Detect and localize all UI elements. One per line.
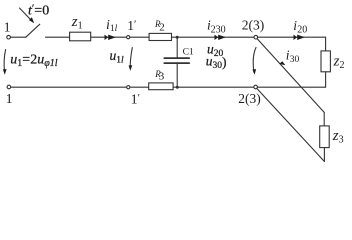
voltage arrow u1 xyxy=(3,50,7,75)
node 1' (top) xyxy=(127,18,137,39)
resistor z1 xyxy=(70,14,91,41)
node 2(3) (top) xyxy=(242,17,264,39)
junction dot (C1 bottom) xyxy=(176,86,179,89)
svg-text:t′=0: t′=0 xyxy=(28,2,49,18)
svg-text:30: 30 xyxy=(290,55,300,65)
bottom bus wire xyxy=(11,86,326,88)
wire R2 to corner (top bus) xyxy=(172,36,326,38)
switch blade S xyxy=(26,24,40,37)
current arrow i20 xyxy=(293,18,307,40)
impedance z3 xyxy=(320,126,344,148)
wire z1 to node 1' xyxy=(91,36,127,38)
svg-text:230: 230 xyxy=(211,24,226,35)
junction dot (C1 top) xyxy=(176,36,179,39)
current arrow i30 on diagonal xyxy=(279,47,299,65)
svg-text:2: 2 xyxy=(159,22,165,34)
impedance z2 xyxy=(321,51,344,72)
wire switch to z1 xyxy=(46,36,70,38)
voltage arrow u1l xyxy=(129,48,133,71)
annotation arrow t'=0 xyxy=(20,8,35,23)
node 1' (bottom) xyxy=(127,86,140,108)
svg-text:C1: C1 xyxy=(183,48,194,58)
diagonal wire node 2(3) bottom to z3 bottom xyxy=(257,89,324,162)
wire terminal 1 to switch pivot xyxy=(11,36,26,38)
svg-text:2(3): 2(3) xyxy=(242,17,264,32)
wire node 1' to R2 xyxy=(130,36,149,38)
current arrow i230 xyxy=(207,17,226,40)
node 2(3) (bottom) xyxy=(238,85,260,106)
svg-text:1: 1 xyxy=(4,19,11,34)
terminal 1 (bottom-left) xyxy=(6,85,13,107)
wire z3 bottom lead xyxy=(323,148,325,162)
corner wire down to z2 xyxy=(325,37,327,51)
svg-text:2(3): 2(3) xyxy=(238,91,260,106)
svg-text:1: 1 xyxy=(6,92,13,107)
svg-text:3: 3 xyxy=(159,71,165,83)
diagonal wire node 2(3) top to z3 xyxy=(257,39,324,113)
terminal 1 (top-left) xyxy=(4,19,11,39)
current arrow i1l xyxy=(105,18,118,40)
wire z2 bottom to bottom bus xyxy=(325,72,327,87)
wire corner to z3 xyxy=(323,112,325,126)
svg-text:20: 20 xyxy=(297,24,307,35)
resistor R3 xyxy=(149,69,173,90)
voltage arrow u20/u30 xyxy=(252,48,256,75)
resistor R2 xyxy=(149,19,171,40)
capacitor C1 xyxy=(164,37,194,87)
